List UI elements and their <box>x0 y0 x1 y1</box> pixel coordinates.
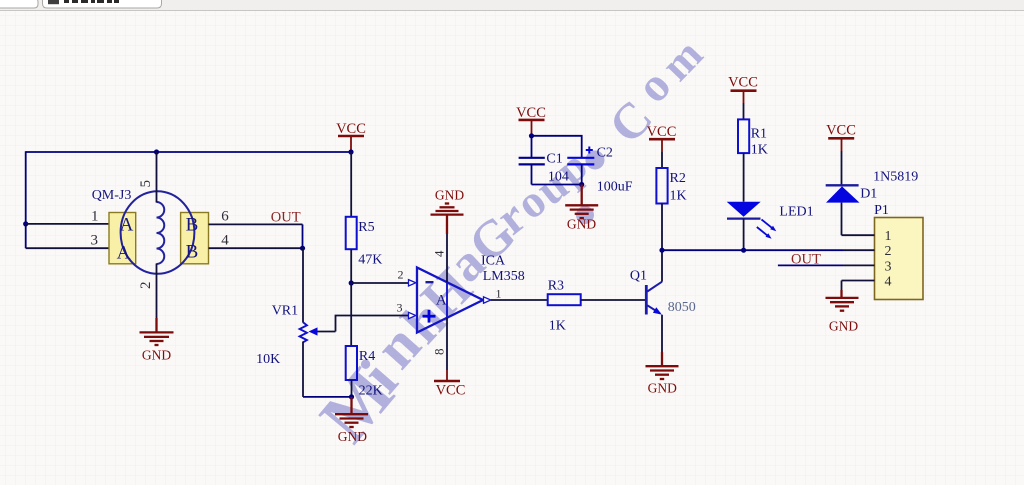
sensor pin 5 stub <box>156 152 158 203</box>
svg-text:R1: R1 <box>751 127 767 142</box>
svg-text:C2: C2 <box>597 146 613 161</box>
wire sensor pin4 (208.5,248.2)-(302.5,248.2) <box>209 247 303 249</box>
value 1K (R2) <box>670 189 687 204</box>
svg-text:VCC: VCC <box>436 383 466 399</box>
op-amp pin 4 lead <box>446 234 448 283</box>
svg-text:R5: R5 <box>358 220 374 235</box>
wire top rail VCC (25.7,152)-(351,152) <box>26 151 351 153</box>
svg-text:OUT: OUT <box>791 252 821 268</box>
connector P1 pin number 1 <box>885 229 892 244</box>
node junction at (351,152) <box>348 149 353 154</box>
ground symbol below R4 <box>335 397 368 427</box>
connector P1 pin 1 lead <box>842 234 875 236</box>
svg-text:VCC: VCC <box>647 124 677 140</box>
op-amp pin number 3 <box>397 301 403 315</box>
value LM358 <box>483 269 525 284</box>
svg-text:B: B <box>186 215 199 236</box>
sensor electrode letter A lower <box>117 242 131 263</box>
watermark MinhHaGroup.Com <box>305 30 713 457</box>
wire sensor pin3 (25.7,248.2)-(109,248.2) <box>26 247 109 249</box>
node junction at (662,250.2) <box>659 248 664 253</box>
svg-text:1: 1 <box>885 229 892 244</box>
node junction at (531.5,135.8) <box>529 133 534 138</box>
connector P1 pin number 3 <box>885 259 892 274</box>
svg-text:QM-J3: QM-J3 <box>92 188 132 203</box>
potentiometer VR1 bottom lead <box>302 342 304 397</box>
ground symbol below P1 <box>826 290 859 311</box>
sensor electrode letter B lower <box>186 241 199 262</box>
svg-text:C1: C1 <box>546 152 562 167</box>
svg-text:47K: 47K <box>358 253 382 268</box>
wire vertical to R4 (351.2,283)-(351.2,346) <box>350 283 352 346</box>
svg-text:22K: 22K <box>359 384 383 399</box>
sensor pin number 2 (rotated) <box>138 282 154 290</box>
svg-text:2: 2 <box>885 244 892 259</box>
tab 2 title text (clipped glyph bottoms) <box>64 0 119 3</box>
svg-text:2: 2 <box>398 268 404 282</box>
svg-text:VCC: VCC <box>826 123 856 139</box>
op-amp pin number 8 (rotated) <box>432 349 447 356</box>
svg-text:A: A <box>120 215 134 236</box>
node junction at (351.2,283) <box>349 280 354 285</box>
net label OUT (sensor) <box>271 210 301 226</box>
svg-text:A: A <box>117 242 131 263</box>
sensor electrode letter A upper <box>120 215 134 236</box>
potentiometer VR1 wiper arrow <box>309 327 336 335</box>
sensor pin number 4 <box>221 233 229 249</box>
transistor Q1 emitter lead down <box>661 315 663 352</box>
designator C1 <box>546 152 562 167</box>
diode D1 cathode bar <box>826 184 859 186</box>
wire VR1 bottom to R4 bottom (303,396.9)-(351.5,396.9) <box>303 396 352 398</box>
op-amp pin 8 lead <box>446 318 448 370</box>
resistor R4 <box>346 346 357 397</box>
svg-text:GND: GND <box>435 188 464 203</box>
connector P1 pin number 2 <box>885 244 892 259</box>
ground symbol below caps <box>565 185 598 219</box>
value 10K <box>256 352 280 367</box>
svg-text:4: 4 <box>221 233 229 249</box>
svg-text:2: 2 <box>138 282 154 290</box>
svg-text:3: 3 <box>885 259 892 274</box>
resistor R3 <box>548 294 581 305</box>
svg-text:1N5819: 1N5819 <box>873 170 918 185</box>
tab 2 icon (clipped) <box>48 0 59 4</box>
wire P1 pin4 to ground (841.5,280.5)-(841.5,297.9) <box>841 281 843 291</box>
sensor QM-J3 body left electrode box <box>109 213 136 264</box>
GND label above op-amp <box>435 188 464 203</box>
node junction at (581.7,184.5) <box>579 182 584 187</box>
designator R3 <box>548 279 564 294</box>
op-amp U1 LM358 triangle <box>417 268 483 333</box>
ground symbol above op-amp pin 4 (inverted) <box>431 204 464 235</box>
tab 1 (partial document tab) <box>0 0 38 8</box>
svg-text:10K: 10K <box>256 352 280 367</box>
svg-text:VR1: VR1 <box>272 304 298 319</box>
GND label below caps <box>567 217 596 232</box>
svg-text:8050: 8050 <box>668 300 696 315</box>
svg-text:Q1: Q1 <box>630 269 647 284</box>
op-amp plus sign <box>423 310 436 323</box>
node junction at (351.5,396.9) <box>349 394 354 399</box>
top tab bar background <box>0 0 1024 11</box>
power VCC above R2 <box>647 124 677 168</box>
designator R1 <box>751 127 767 142</box>
svg-text:100uF: 100uF <box>597 180 633 195</box>
wire left vertical (25.7,152)-(25.7,248.2) <box>25 151 27 248</box>
svg-text:GND: GND <box>567 217 596 232</box>
value 22K <box>359 384 383 399</box>
designator P1 <box>874 203 889 218</box>
svg-text:5: 5 <box>138 180 154 188</box>
designator LED1 <box>779 205 813 220</box>
svg-text:A: A <box>436 293 447 309</box>
power VCC above C1 <box>516 105 546 136</box>
svg-text:3: 3 <box>397 301 403 315</box>
sensor pin 2 stub <box>156 264 158 321</box>
capacitor C1 <box>519 136 545 185</box>
svg-text:1K: 1K <box>670 189 687 204</box>
GND label below sensor <box>142 348 171 363</box>
node junction at (25.7,223.9) <box>23 221 28 226</box>
LED LED1 cathode bar <box>727 217 761 219</box>
wire R3 to Q1 base (580.7,300)-(645.2,300) <box>581 299 646 301</box>
value 100uF <box>597 180 633 195</box>
wire op-amp pin2 (351.2,283)-(408.5,283) <box>351 282 409 284</box>
sensor QM-J3 body right electrode box <box>181 213 209 264</box>
sensor pin number 3 <box>91 233 99 249</box>
connector P1 body <box>875 218 924 300</box>
op-amp input arrow pin 2 <box>409 280 416 286</box>
op-amp output arrow pin 1 <box>484 297 491 303</box>
ground symbol below Q1 <box>646 352 679 379</box>
op-amp pin number 1 <box>496 287 502 301</box>
svg-text:1K: 1K <box>549 319 566 334</box>
ground symbol below sensor <box>140 318 174 345</box>
diode D1 lead down <box>841 203 843 236</box>
net label OUT (P1) <box>791 252 821 268</box>
wire VR1 top rail (303,248.2)-(303,322.5) <box>302 248 304 322</box>
resistor R1 <box>738 119 749 201</box>
LED LED1 triangle <box>727 202 761 217</box>
sensor QM-J3 heater coil <box>157 202 165 264</box>
designator R5 <box>358 220 374 235</box>
sensor QM-J3 circle <box>121 191 195 274</box>
svg-text:D1: D1 <box>860 187 877 202</box>
transistor Q1 emitter diagonal with arrow <box>647 305 662 314</box>
transistor Q1 base bar <box>645 285 648 315</box>
svg-text:P1: P1 <box>874 203 889 218</box>
connector P1 pin 3 lead <box>843 264 875 266</box>
sensor pin number 5 (rotated) <box>138 180 154 188</box>
capacitor C2 (electrolytic) <box>567 158 594 185</box>
svg-text:104: 104 <box>548 170 569 185</box>
wire wiper corner (335.5,331.5)-(335.5,315.5)-(409,315.5) <box>336 316 410 332</box>
connector P1 pin 2 lead <box>843 249 875 251</box>
op-amp letter A <box>436 293 447 309</box>
wire OUT net (777.9,265.4)-(843,265.4) <box>778 264 843 266</box>
svg-text:VCC: VCC <box>728 75 758 91</box>
resistor R5 <box>346 152 357 283</box>
svg-text:4: 4 <box>432 250 447 257</box>
wire sensor pin1 (25.7,223.9)-(109,223.9) <box>26 223 109 225</box>
transistor Q1 collector lead up <box>661 250 663 282</box>
designator ICA <box>481 254 506 269</box>
svg-text:GND: GND <box>142 348 171 363</box>
sensor electrode letter B upper <box>186 215 199 236</box>
capacitor C2 plus sign <box>586 147 593 154</box>
value 1K (R1) <box>751 143 768 158</box>
op-amp input arrow pin 3 <box>409 312 416 318</box>
svg-text:VCC: VCC <box>336 121 366 137</box>
sensor pin number 1 <box>91 209 99 225</box>
LED light arrow 2 <box>757 227 772 239</box>
designator R4 <box>359 349 375 364</box>
wire op-amp output (490.8,300)-(547.7,300) <box>491 299 548 301</box>
svg-text:R2: R2 <box>670 171 686 186</box>
LED LED1 lead down <box>743 219 745 251</box>
designator D1 <box>860 187 877 202</box>
wire sensor pin6 to OUT corner <box>209 223 303 225</box>
svg-text:3: 3 <box>91 233 99 249</box>
svg-text:8: 8 <box>432 349 447 356</box>
connector P1 pin number 4 <box>885 275 892 290</box>
svg-text:GND: GND <box>648 381 677 396</box>
designator C2 <box>597 146 613 161</box>
GND label below R4 <box>338 429 367 444</box>
svg-text:1: 1 <box>496 287 502 301</box>
power VCC above R1 <box>728 75 758 120</box>
potentiometer VR1 zigzag <box>300 322 307 342</box>
designator VR1 <box>272 304 298 319</box>
svg-text:OUT: OUT <box>271 210 301 226</box>
value 47K <box>358 253 382 268</box>
sensor designator QM-J3 <box>92 188 132 203</box>
svg-text:4: 4 <box>885 275 892 290</box>
node junction at (156.5,152) <box>154 149 159 154</box>
svg-text:6: 6 <box>221 209 229 225</box>
connector P1 pin 4 lead <box>842 280 875 282</box>
diode D1 triangle <box>826 186 860 202</box>
power VCC below op-amp pin 8 (inverted) <box>434 370 465 399</box>
designator Q1 <box>630 269 647 284</box>
value 1K <box>549 319 566 334</box>
svg-text:1: 1 <box>91 209 99 225</box>
value 104 <box>548 170 569 185</box>
op-amp pin number 4 (rotated) <box>432 250 447 257</box>
value 8050 <box>668 300 696 315</box>
svg-text:B: B <box>186 241 199 262</box>
svg-text:GND: GND <box>338 429 367 444</box>
wire cap top rail (531.5,135.8)-(581.7,135.8)-(581.7,157.5) <box>532 136 582 158</box>
value 1N5819 <box>873 170 918 185</box>
sensor pin number 6 <box>221 209 229 225</box>
op-amp pin number 2 <box>398 268 404 282</box>
svg-text:GND: GND <box>829 319 858 334</box>
GND label below Q1 <box>648 381 677 396</box>
svg-text:R3: R3 <box>548 279 564 294</box>
power VCC above R5 <box>336 121 366 152</box>
transistor Q1 collector diagonal <box>647 282 662 292</box>
wire output rail (662,250.2)-(843,250.2) <box>662 249 843 251</box>
svg-text:1K: 1K <box>751 143 768 158</box>
power VCC above D1 <box>826 123 856 186</box>
resistor R2 <box>656 168 667 250</box>
wire cap bottom rail (531.5,184.5)-(581.7,184.5) <box>532 184 582 186</box>
svg-text:ICA: ICA <box>481 254 506 269</box>
svg-text:LED1: LED1 <box>779 205 813 220</box>
node junction at (302.5,248.2) <box>300 246 305 251</box>
GND label below P1 <box>829 319 858 334</box>
svg-text:LM358: LM358 <box>483 269 525 284</box>
LED light arrow 1 <box>762 220 777 232</box>
designator R2 <box>670 171 686 186</box>
op-amp minus sign <box>426 281 434 283</box>
wire OUT corner vertical (302.5,224.4)-(302.5,248.2) <box>302 224 304 248</box>
tab 2 (active document tab) <box>43 0 162 8</box>
svg-text:R4: R4 <box>359 349 375 364</box>
node junction at (743.6,250.2) <box>741 248 746 253</box>
